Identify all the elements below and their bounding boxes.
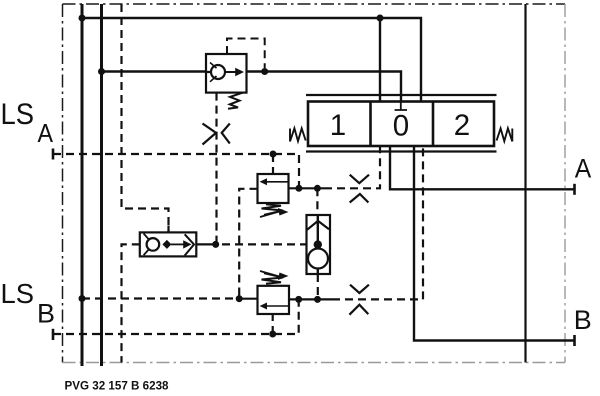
- label part number PVG 32 157 B 6238: [65, 378, 169, 392]
- spool valve U1 top rail: [306, 94, 497, 96]
- relief valve RV2 arrow: [260, 303, 289, 310]
- svg-text:2: 2: [454, 109, 470, 142]
- node junction shuttle out: [212, 241, 219, 248]
- orifice O3: [349, 285, 369, 315]
- node junction top center: [377, 15, 384, 22]
- svg-text:PVG 32 157 B 6238: PVG 32 157 B 6238: [65, 378, 169, 392]
- check valve CV1 body: [206, 54, 247, 93]
- label LS upper: [1, 98, 35, 131]
- spool position label 0: [393, 109, 409, 142]
- spring RV1 (adjustable): [260, 204, 289, 217]
- wire dashed to spool port A side: [324, 146, 380, 188]
- wire shuttle to CV2 dashed: [222, 243, 307, 245]
- label B right: [574, 305, 592, 335]
- wire spool pilot from top junction: [379, 18, 381, 102]
- node junction RV2 in: [236, 295, 243, 302]
- relief valve RV1 body: [258, 174, 289, 203]
- frame left border (dash-dot): [62, 4, 64, 363]
- node LS B port tick: [52, 329, 55, 340]
- node junction T feed: [98, 68, 105, 75]
- shuttle valve chevron: [185, 234, 194, 255]
- wire RV1 outlet solid: [289, 187, 325, 189]
- node junction P lower: [79, 295, 86, 302]
- wire dashed to spool port B side: [332, 146, 423, 299]
- orifice O1: [203, 124, 230, 145]
- svg-text:LS: LS: [1, 278, 35, 309]
- label A left: [38, 120, 54, 148]
- wire P to RV2 dashed: [82, 297, 239, 299]
- node junction pilot tap: [261, 68, 268, 75]
- wire into CV2: [307, 243, 315, 245]
- wire LS B dashed line: [53, 299, 299, 334]
- svg-text:0: 0: [393, 109, 409, 142]
- wire RV2 bottom dashed: [272, 314, 274, 334]
- node junction P top: [79, 15, 86, 22]
- relief valve RV1 arrow: [260, 178, 289, 185]
- spool position label 2: [454, 109, 470, 142]
- wire CV2 bottom dashed: [317, 274, 319, 299]
- node junction RV2 out: [295, 296, 302, 303]
- wire work port B solid: [414, 146, 575, 341]
- frame top border (dash-dot): [63, 3, 566, 5]
- shuttle valve ball: [147, 238, 160, 251]
- label B left: [37, 299, 55, 329]
- check valve CV2 ball: [308, 249, 328, 269]
- wire LS dashed vertical lower run from shuttle left: [122, 244, 140, 362]
- spring CV1: [228, 93, 243, 109]
- wire tank return vertical right: [524, 4, 526, 363]
- wire work port A solid: [390, 146, 575, 189]
- node LS A port tick: [52, 149, 55, 160]
- wire pilot dashed over check valve: [227, 39, 265, 69]
- wire shuttle out solid: [196, 243, 215, 245]
- wire pump supply top horizontal: [82, 18, 421, 102]
- frame bottom border (dash-dot): [63, 362, 566, 364]
- node A port tick: [573, 184, 576, 195]
- shuttle valve seat marks: [144, 234, 150, 256]
- check valve CV2 body: [307, 215, 331, 274]
- check valve CV1 ball: [210, 63, 225, 82]
- node junction LS B: [269, 331, 276, 338]
- svg-text:A: A: [38, 120, 54, 148]
- svg-text:1: 1: [330, 109, 346, 142]
- wire shuttle top stub: [167, 226, 169, 233]
- node junction CV2 top: [314, 185, 321, 192]
- svg-text:B: B: [37, 299, 55, 329]
- wire LS dashed vertical upper run to shuttle top: [122, 4, 169, 233]
- wire LS A to relief valve dashed: [272, 154, 274, 174]
- node B port tick: [573, 335, 576, 346]
- wire RV2 in solid: [239, 298, 257, 300]
- orifice O2: [350, 175, 369, 203]
- check valve CV1 flow arrow: [225, 68, 244, 77]
- node junction RV1 out: [295, 185, 302, 192]
- wire P supply line (thick vertical): [81, 4, 84, 366]
- label A right: [575, 153, 592, 183]
- wire RV1 left drain dashed: [239, 189, 257, 299]
- spool valve U1 bottom rail: [306, 150, 497, 152]
- spool position label 1: [330, 109, 346, 142]
- spring spool left: [290, 128, 306, 141]
- svg-text:B: B: [574, 305, 592, 335]
- spring RV2 (adjustable): [260, 271, 289, 284]
- wire compensator feed horizontal: [102, 72, 402, 111]
- wire T tank line (thick vertical): [100, 4, 103, 366]
- svg-text:A: A: [575, 153, 592, 183]
- relief valve RV2 body: [258, 286, 290, 314]
- wire through CV1: [206, 71, 226, 73]
- wire CV2 top dashed: [316, 188, 318, 215]
- check valve CV2 top chevron: [307, 221, 329, 230]
- label LS lower: [1, 278, 35, 309]
- frame right border (dash-dot): [564, 4, 566, 363]
- shuttle valve poppet dot: [162, 240, 171, 249]
- check valve CV2 center line: [317, 215, 319, 274]
- spool blocked port symbol: [395, 102, 407, 111]
- node junction LS A: [270, 151, 277, 158]
- check valve CV2 poppet dot: [314, 240, 322, 248]
- shuttle valve SV body: [140, 232, 197, 256]
- wire CV1 drain dashed down to shuttle line: [215, 93, 217, 245]
- wire RV2 outlet solid: [289, 298, 332, 300]
- wire LS A dashed line: [53, 154, 299, 188]
- spring spool right: [497, 128, 513, 141]
- check valve CV2 seat V: [307, 257, 331, 267]
- svg-text:LS: LS: [1, 98, 35, 131]
- node junction CV2 bottom: [314, 296, 321, 303]
- spool valve U1 body: [308, 102, 494, 147]
- shuttle valve arrow: [171, 240, 192, 248]
